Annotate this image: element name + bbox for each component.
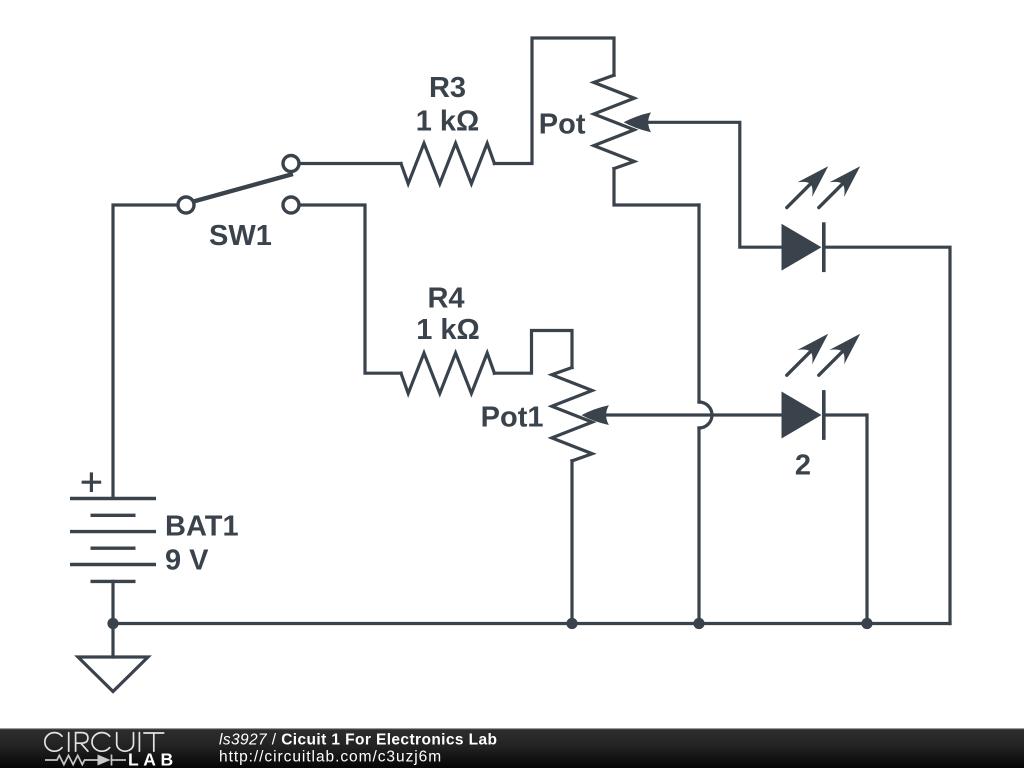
- LED D2 cathode bar: [822, 390, 826, 440]
- wire switch top output to R3: [300, 162, 401, 165]
- wire Pot1 bottom to ground bus: [570, 461, 573, 624]
- Pot1 wiper arrow: [582, 405, 609, 425]
- LED D1 cathode bar: [822, 222, 826, 272]
- svg-text:1 kΩ: 1 kΩ: [416, 106, 480, 138]
- battery BAT1 plus sign: [82, 472, 102, 492]
- wire battery top to switch: [113, 205, 177, 497]
- wire battery bottom to junction: [111, 581, 114, 623]
- LED D1 light arrow 1: [787, 166, 828, 207]
- junction node Pot1 bottom: [566, 618, 577, 629]
- battery BAT1 long plate 3: [70, 563, 156, 566]
- potentiometer Pot body: [594, 75, 634, 168]
- switch SW1 lever: [194, 174, 294, 202]
- svg-text:1 kΩ: 1 kΩ: [416, 314, 480, 346]
- svg-text:SW1: SW1: [209, 220, 272, 252]
- wire switch bottom output to R4: [300, 205, 401, 373]
- junction node battery/ground: [107, 618, 118, 629]
- svg-text:Pot: Pot: [539, 109, 586, 141]
- resistor R3: [401, 143, 494, 183]
- wire R4 to Pot1 top: [494, 331, 572, 374]
- LED D2 light arrow 1: [787, 334, 828, 375]
- svg-text:R3: R3: [429, 72, 466, 104]
- wire LED2 cathode down to bus: [824, 415, 867, 624]
- wire LED1 cathode to right rail: [824, 247, 950, 623]
- Pot wiper arrow: [624, 112, 651, 132]
- LED D1 light arrow 2: [819, 166, 860, 207]
- wire vertical column upper: [697, 205, 700, 402]
- wire Pot bottom to node column: [614, 169, 699, 205]
- svg-text:BAT1: BAT1: [165, 511, 239, 543]
- logo diode triangle: [98, 755, 111, 766]
- LED D1 triangle: [782, 225, 821, 270]
- switch SW1: [178, 156, 299, 214]
- wire junction to ground symbol: [111, 624, 114, 658]
- battery BAT1 long plate 1: [70, 497, 156, 500]
- wire Pot wiper to LED1: [645, 122, 782, 247]
- junction node LED2 return: [861, 618, 872, 629]
- battery BAT1 long plate 2: [70, 530, 156, 533]
- battery BAT1: [70, 499, 156, 582]
- battery BAT1 short plate 2: [91, 547, 136, 550]
- wire ground bus: [113, 622, 950, 625]
- svg-text:LAB: LAB: [128, 749, 178, 768]
- switch SW1 common terminal: [178, 197, 194, 213]
- svg-text:http://circuitlab.com/c3uzj6m: http://circuitlab.com/c3uzj6m: [219, 749, 442, 766]
- wire R3 to Pot top: [494, 38, 614, 164]
- junction node column: [693, 618, 704, 629]
- wire vertical column lower: [697, 428, 700, 624]
- wire hop over Pot1 wiper: [699, 402, 712, 428]
- battery BAT1 short plate 1: [91, 514, 136, 517]
- svg-text:Pot1: Pot1: [481, 402, 544, 434]
- resistor R4: [401, 353, 494, 393]
- ground symbol: [78, 657, 148, 692]
- logo CIRCUIT wordmark: [45, 733, 164, 752]
- LED D2 light arrow 2: [819, 334, 860, 375]
- svg-text:9 V: 9 V: [165, 545, 209, 577]
- wire Pot1 wiper to LED2: [604, 413, 782, 416]
- switch SW1 throw terminal 1: [283, 156, 299, 172]
- switch SW1 throw terminal 2: [283, 197, 299, 213]
- svg-text:ls3927 / Cicuit 1 For Electron: ls3927 / Cicuit 1 For Electronics Lab: [219, 731, 497, 748]
- logo resistor squiggle: [45, 755, 98, 764]
- potentiometer Pot1 body: [552, 368, 592, 461]
- battery BAT1 short plate 3: [91, 580, 136, 583]
- LED D2 triangle: [782, 392, 821, 437]
- logo diode cathode bar and tail wire: [111, 755, 127, 766]
- svg-text:2: 2: [795, 450, 811, 482]
- svg-text:R4: R4: [427, 283, 464, 315]
